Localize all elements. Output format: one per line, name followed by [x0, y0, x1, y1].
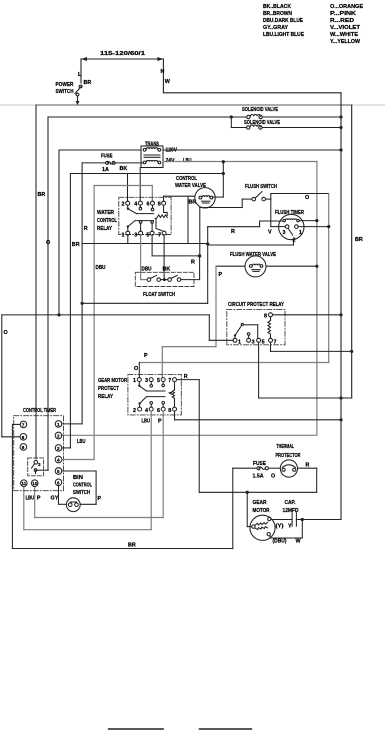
water control relay contact arm upper: [127, 205, 154, 213]
svg-text:5: 5: [57, 469, 60, 474]
svg-text:PROTECT: PROTECT: [98, 386, 120, 392]
wire timer pin8 from line B: [2, 436, 20, 438]
svg-text:O: O: [4, 330, 8, 336]
wire 120V left: [59, 149, 141, 151]
svg-text:3: 3: [283, 230, 286, 236]
circuit protect relay coil: [268, 317, 271, 339]
svg-text:O: O: [305, 195, 309, 201]
gear relay coil: [168, 382, 175, 408]
wire motor DBU W leg: [270, 520, 302, 545]
svg-text:(DBU): (DBU): [273, 539, 287, 545]
svg-text:BK: BK: [163, 267, 171, 273]
svg-text:1A: 1A: [102, 167, 109, 173]
svg-text:R: R: [84, 226, 88, 232]
wire neutral bus x341: [302, 93, 341, 520]
wire control valve right leg: [213, 162, 224, 197]
control timer pins left 7 8 9: [20, 421, 27, 450]
wire gear relay pin8 to neutral: [175, 411, 342, 420]
svg-text:BR: BR: [355, 237, 363, 243]
wire motor feed drop: [247, 492, 251, 526]
wire relay pin5 to R float node: [152, 235, 200, 265]
svg-text:BR..BROWN: BR..BROWN: [263, 11, 292, 17]
svg-text:BR: BR: [72, 242, 80, 248]
wire timer pin4 from DBU bus: [62, 459, 94, 461]
fuse 1A: [82, 154, 143, 174]
svg-text:BR: BR: [84, 80, 92, 86]
wire crease artifact: [0, 104, 385, 106]
wire V to flush timer pin3: [270, 199, 272, 227]
svg-text:115-120/60/1: 115-120/60/1: [100, 51, 145, 57]
svg-text:FUSE: FUSE: [253, 461, 266, 467]
svg-text:PROTECTOR: PROTECTOR: [276, 453, 301, 459]
wire R vertical x207: [207, 227, 209, 304]
svg-text:O: O: [134, 366, 138, 372]
node dot pin8 neutral: [339, 313, 342, 316]
wire circuit relay pin5 y398: [259, 342, 352, 398]
svg-text:2: 2: [133, 408, 136, 414]
supply label 115-120/60/1: [100, 51, 145, 57]
wire DBU head and bus: [94, 186, 152, 460]
svg-text:DBU: DBU: [96, 265, 106, 271]
wire flush timer pin2 line: [208, 240, 294, 246]
wire gear relay pin4 LBU: [24, 411, 151, 530]
svg-text:CONTROL: CONTROL: [97, 218, 118, 224]
capacitor CAP 12MFD: [271, 500, 341, 530]
fuse 1.5A: [233, 461, 280, 480]
svg-text:5: 5: [262, 339, 265, 345]
svg-text:5: 5: [157, 378, 160, 384]
svg-text:3: 3: [145, 378, 148, 384]
svg-text:3: 3: [57, 446, 60, 451]
node junction valves: [230, 115, 233, 118]
legend color codes: [263, 4, 363, 45]
svg-text:MOTOR: MOTOR: [253, 508, 270, 514]
svg-text:R: R: [231, 229, 235, 235]
node dot y398 neutral: [339, 396, 342, 399]
water control relay pins top 2 4 6 8: [122, 201, 166, 207]
svg-text:LBU: LBU: [142, 419, 151, 425]
gear relay pins bottom 2 4 6 8: [133, 407, 177, 414]
svg-text:8: 8: [22, 435, 25, 440]
flush water valve: [216, 252, 317, 277]
node dot line B x59: [57, 313, 60, 316]
wire line A y303: [82, 302, 208, 304]
water control relay box: [119, 197, 171, 234]
svg-text:BR: BR: [128, 543, 136, 549]
wire LBU 24V line: [61, 162, 317, 436]
wire O bus x328: [139, 194, 328, 363]
node L: [78, 59, 91, 86]
svg-text:LBU: LBU: [26, 496, 35, 502]
svg-text:BR: BR: [38, 192, 46, 198]
water control relay pins bottom 1 3 5 7: [122, 231, 167, 238]
svg-text:4: 4: [134, 202, 137, 208]
svg-text:P: P: [158, 419, 162, 425]
svg-text:LBU.LIGHT BLUE: LBU.LIGHT BLUE: [263, 32, 304, 38]
wire R bus x82: [82, 163, 88, 424]
wire timer pin5 to bin switch: [62, 471, 102, 504]
wire thermal hookup: [298, 463, 317, 493]
gear relay contact arm upper: [138, 382, 165, 391]
wire neutral top: [163, 92, 341, 94]
node R dot: [206, 242, 209, 245]
node dots on neutral bus for valves: [339, 115, 342, 118]
wire BR left bus: [36, 105, 45, 459]
wire relay pin7 BK to float: [163, 235, 171, 279]
wire gear relay pin1 O: [134, 363, 139, 378]
svg-text:TRANS: TRANS: [145, 142, 159, 148]
svg-text:1: 1: [133, 378, 136, 384]
wire relay pin3 DBU to float: [141, 235, 152, 279]
solenoid valve 2: [244, 120, 280, 129]
control timer motor box: [28, 458, 44, 476]
wire gear relay pin7 R to motor line: [177, 374, 317, 492]
svg-text:P: P: [98, 496, 102, 502]
gear motor protect relay box: [128, 374, 181, 415]
control timer box: [14, 416, 64, 491]
svg-text:POWER: POWER: [56, 82, 74, 88]
node dot line A: [81, 302, 84, 305]
node dot pin7 BR: [350, 350, 353, 353]
svg-text:GEAR MOTOR: GEAR MOTOR: [98, 378, 127, 384]
wire circuit relay pin7 to BR: [271, 342, 352, 351]
svg-text:FUSE: FUSE: [101, 154, 113, 160]
svg-text:O: O: [271, 474, 275, 480]
svg-text:7: 7: [158, 233, 161, 239]
svg-text:SWITCH: SWITCH: [73, 490, 90, 496]
wire solenoid feed y117: [48, 116, 341, 118]
wire BR line y173: [70, 174, 223, 201]
svg-text:THERMAL: THERMAL: [277, 444, 295, 450]
node dot BR tie: [222, 172, 225, 175]
svg-text:RELAY: RELAY: [98, 394, 113, 400]
wire timer pin7 BR bottom: [12, 424, 232, 548]
gear relay contact arm lower: [138, 397, 165, 408]
svg-text:8: 8: [264, 313, 267, 319]
node N: [161, 59, 171, 93]
svg-text:LBU: LBU: [77, 439, 86, 445]
svg-text:1.5A: 1.5A: [253, 474, 264, 480]
svg-text:W: W: [165, 79, 171, 85]
svg-text:2: 2: [122, 202, 125, 208]
node dot coil LBU: [315, 219, 318, 222]
svg-text:P: P: [37, 496, 41, 502]
wire float right up to R node: [199, 256, 201, 280]
svg-text:O: O: [46, 240, 50, 246]
svg-text:N: N: [161, 69, 165, 75]
gear motor: [250, 500, 275, 540]
svg-text:SWITCH: SWITCH: [56, 89, 74, 95]
svg-text:BIN: BIN: [73, 475, 83, 481]
svg-text:6: 6: [157, 408, 160, 414]
water control relay contact arm lower: [127, 221, 154, 232]
circuit protect relay pins: [233, 313, 277, 346]
gear relay pins top 1 3 5 7: [133, 378, 177, 384]
wire circuit relay pin8 to neutral: [273, 314, 342, 316]
node dot 120V on neutral: [339, 148, 342, 151]
control timer cam switch: [32, 461, 49, 474]
svg-text:CONTROL: CONTROL: [73, 483, 92, 489]
svg-text:V...VIOLET: V...VIOLET: [330, 25, 361, 31]
node dot pin8 neutral: [339, 418, 342, 421]
water control relay coil: [154, 206, 167, 231]
svg-text:4: 4: [57, 458, 60, 463]
thermal protector: [276, 444, 301, 477]
wire R node y243: [82, 235, 208, 243]
wire flush timer coil left R: [208, 221, 283, 235]
wire P from flush valve: [144, 266, 223, 378]
svg-text:DBU: DBU: [142, 267, 152, 273]
svg-text:SOLENOID VALVE: SOLENOID VALVE: [242, 107, 278, 113]
wire BR bus x70: [70, 174, 79, 448]
svg-text:GY: GY: [51, 496, 59, 502]
wire O feed bus x48: [46, 117, 50, 470]
svg-text:1: 1: [122, 233, 125, 239]
svg-text:10: 10: [32, 481, 38, 486]
wire timer pin6 GY to bin switch: [51, 486, 67, 505]
wire valve2 branch: [231, 117, 341, 128]
svg-text:4: 4: [145, 408, 148, 414]
svg-text:(Y): (Y): [276, 524, 284, 530]
circuit protect relay box: [227, 309, 285, 344]
svg-text:BK..BLACK: BK..BLACK: [263, 4, 291, 10]
flush switch: [200, 184, 277, 255]
svg-text:GY..GRAY: GY..GRAY: [263, 25, 288, 31]
control water valve: [175, 176, 215, 208]
svg-text:P: P: [144, 353, 148, 359]
wire line B y315: [2, 315, 233, 437]
node dot timer pin1 O: [327, 225, 330, 228]
wire 120V right: [163, 149, 341, 151]
svg-text:CONTROL TIMER: CONTROL TIMER: [23, 408, 56, 414]
node dot 24V tap: [222, 160, 225, 163]
svg-text:1: 1: [238, 339, 241, 345]
svg-text:CONTROL: CONTROL: [176, 176, 198, 182]
svg-text:7: 7: [22, 422, 25, 427]
footer line 2: [200, 728, 252, 730]
svg-text:11: 11: [21, 481, 26, 486]
solenoid valve 1: [242, 107, 278, 119]
svg-text:2: 2: [293, 238, 296, 244]
svg-text:8: 8: [168, 408, 171, 414]
svg-text:1: 1: [57, 422, 60, 427]
svg-text:5: 5: [147, 233, 150, 239]
svg-text:R: R: [191, 260, 195, 266]
svg-text:RELAY: RELAY: [97, 226, 112, 232]
svg-text:CIRCUIT PROTECT RELAY: CIRCUIT PROTECT RELAY: [228, 302, 284, 308]
float switch: [135, 272, 194, 286]
wire O from flush switch: [271, 194, 329, 202]
svg-text:P: P: [219, 272, 223, 278]
control timer pins right 1-6: [55, 421, 62, 486]
circuit protect relay contact arm: [234, 323, 258, 338]
svg-text:FLUSH SWITCH: FLUSH SWITCH: [245, 184, 277, 190]
svg-text:WATER: WATER: [97, 210, 114, 216]
svg-text:6: 6: [147, 202, 150, 208]
svg-text:3: 3: [38, 462, 41, 467]
svg-text:2: 2: [57, 434, 60, 439]
wire timer pin3 from BR bus: [62, 447, 71, 449]
svg-text:FLOAT SWITCH: FLOAT SWITCH: [143, 292, 175, 298]
svg-text:Y: Y: [288, 524, 292, 530]
svg-text:R: R: [306, 463, 310, 469]
wire BR bus right: [352, 105, 363, 398]
svg-text:CAP.: CAP.: [285, 500, 296, 506]
svg-text:W...WHITE: W...WHITE: [330, 32, 358, 38]
power switch: [56, 82, 83, 105]
transformer TRANS: [141, 142, 192, 168]
svg-text:O...ORANGE: O...ORANGE: [330, 4, 363, 10]
node dot flush valve LBU: [315, 265, 318, 268]
wire relay pin8 to control valve: [164, 196, 197, 243]
svg-text:GEAR: GEAR: [253, 500, 267, 506]
svg-text:8: 8: [158, 202, 161, 208]
wire hot line y105: [36, 104, 352, 106]
svg-text:BK: BK: [120, 166, 128, 172]
bin control switch: [66, 475, 92, 512]
svg-text:7: 7: [274, 339, 277, 345]
svg-text:6: 6: [57, 480, 60, 485]
svg-text:FLUSH WATER VALVE: FLUSH WATER VALVE: [230, 252, 276, 258]
svg-text:3: 3: [134, 233, 137, 239]
svg-text:9: 9: [22, 445, 25, 450]
svg-text:FLUSH TIMER: FLUSH TIMER: [275, 210, 304, 216]
svg-text:SOLENOID VALVE: SOLENOID VALVE: [244, 120, 280, 126]
node dot motor feed: [246, 491, 249, 494]
svg-text:R...RED: R...RED: [330, 18, 354, 24]
footer line 1: [109, 728, 164, 730]
dimension line with arrows: [81, 57, 163, 61]
wire flush timer coil right to LBU: [299, 220, 317, 222]
flush timer: [268, 210, 329, 244]
wire gear relay pin6 P: [35, 411, 164, 517]
svg-text:R: R: [184, 374, 188, 380]
wire timer pin1 from R bus: [62, 423, 82, 425]
node dot cap W: [301, 518, 304, 521]
svg-text:3: 3: [252, 339, 255, 345]
node dot float R: [198, 254, 201, 257]
svg-text:P...PINK: P...PINK: [330, 11, 356, 17]
control timer pins bottom 11 10: [21, 480, 39, 487]
wire trans to relay pin4: [139, 168, 141, 201]
svg-text:7: 7: [168, 378, 171, 384]
svg-text:Y...YELLOW: Y...YELLOW: [330, 39, 361, 45]
svg-text:V: V: [268, 230, 272, 236]
wire bus x59: [58, 150, 60, 315]
svg-text:1: 1: [299, 230, 302, 236]
svg-text:DBU.DARK BLUE: DBU.DARK BLUE: [263, 18, 303, 24]
